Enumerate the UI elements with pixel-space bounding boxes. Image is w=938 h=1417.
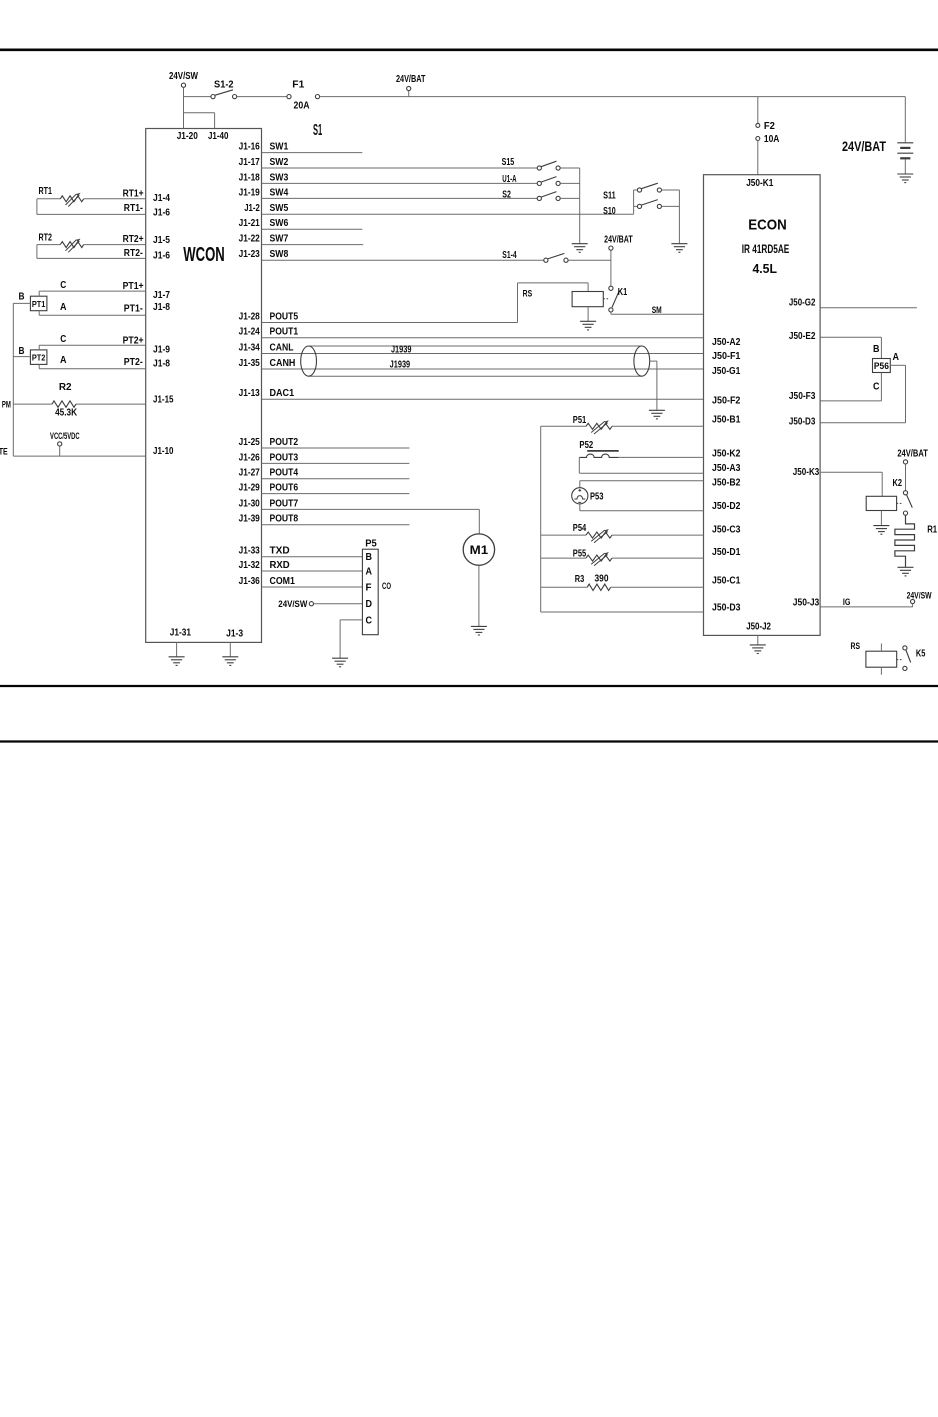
svg-text:A: A bbox=[60, 355, 67, 366]
wire 24V/SW to P5-D bbox=[314, 603, 363, 605]
ground (S11/S10) bbox=[671, 244, 687, 253]
svg-text:J1-6: J1-6 bbox=[153, 251, 170, 262]
svg-text:A: A bbox=[893, 352, 900, 363]
svg-text:S1: S1 bbox=[313, 122, 322, 139]
svg-text:POUT3: POUT3 bbox=[270, 452, 299, 463]
svg-text:P56: P56 bbox=[874, 361, 889, 371]
svg-text:10A: 10A bbox=[764, 134, 780, 145]
ground (battery) bbox=[897, 174, 913, 183]
svg-text:24V/BAT: 24V/BAT bbox=[604, 234, 633, 245]
svg-text:RT1: RT1 bbox=[39, 186, 53, 197]
wire 24V/SW to S1-2 bbox=[184, 96, 211, 98]
wire F2 to ECON J50-K1 bbox=[757, 141, 759, 175]
svg-text:D: D bbox=[366, 599, 373, 610]
svg-text:J1-15: J1-15 bbox=[153, 394, 174, 405]
svg-text:TE: TE bbox=[0, 447, 8, 457]
wire CANH to ECON J50-G1 bbox=[262, 368, 704, 370]
svg-text:IG: IG bbox=[843, 597, 851, 607]
svg-text:F1: F1 bbox=[292, 80, 304, 91]
sender P53 bbox=[579, 481, 581, 488]
svg-text:P54: P54 bbox=[573, 523, 587, 534]
ground (J1-31) bbox=[169, 657, 185, 666]
svg-text:J1-20: J1-20 bbox=[177, 131, 199, 142]
ground (M1) bbox=[471, 626, 487, 635]
relay contact K5 bbox=[903, 646, 907, 650]
svg-text:J1-21: J1-21 bbox=[239, 218, 261, 229]
relay contact K1 bbox=[609, 286, 613, 290]
wire RXD bbox=[262, 570, 363, 572]
svg-text:S11: S11 bbox=[603, 190, 616, 201]
sensor PT1 bbox=[30, 296, 47, 311]
ground (K2 coil) bbox=[873, 526, 889, 535]
wire SW5 up to S11 bbox=[633, 190, 635, 214]
svg-text:24V/BAT: 24V/BAT bbox=[396, 74, 426, 85]
svg-text:PT2-: PT2- bbox=[124, 357, 143, 368]
svg-text:R1: R1 bbox=[927, 525, 937, 536]
ground (K1 coil) bbox=[580, 321, 596, 330]
wire 24V/SW stub down to WCON J1-20 bbox=[183, 87, 185, 128]
svg-text:J1-23: J1-23 bbox=[239, 249, 261, 260]
svg-text:J50-C1: J50-C1 bbox=[712, 575, 741, 586]
svg-text:J1-28: J1-28 bbox=[239, 311, 261, 322]
wire PT2 C bbox=[39, 344, 146, 346]
svg-text:J50-C3: J50-C3 bbox=[712, 525, 741, 536]
svg-text:SW7: SW7 bbox=[270, 234, 289, 245]
wire VCC stub bbox=[59, 446, 61, 456]
wire 24V/BAT to K2 contact bbox=[905, 464, 907, 491]
svg-text:F2: F2 bbox=[764, 121, 775, 132]
wire PT1 A bbox=[38, 311, 40, 316]
svg-text:J50-F3: J50-F3 bbox=[789, 391, 816, 402]
svg-text:J1-13: J1-13 bbox=[239, 388, 261, 399]
wire K5 coil stubs bbox=[880, 644, 882, 652]
svg-text:PT2+: PT2+ bbox=[123, 335, 144, 346]
svg-text:J1-8: J1-8 bbox=[153, 359, 170, 370]
wire SW1 bbox=[262, 152, 363, 154]
wire J50-G2 bbox=[820, 307, 917, 309]
svg-text:J1-36: J1-36 bbox=[239, 576, 261, 587]
svg-text:SW4: SW4 bbox=[270, 187, 289, 198]
svg-text:J50-E2: J50-E2 bbox=[789, 331, 816, 342]
wire COM1 bbox=[262, 586, 363, 588]
svg-text:24V/BAT: 24V/BAT bbox=[842, 139, 887, 154]
svg-text:J1-39: J1-39 bbox=[239, 514, 261, 525]
wire P5-C to ground bbox=[340, 619, 362, 621]
svg-text:24V/BAT: 24V/BAT bbox=[897, 448, 928, 459]
wire POUT8 bbox=[262, 524, 410, 526]
svg-text:J50-G1: J50-G1 bbox=[712, 366, 741, 377]
frame top rule bbox=[0, 48, 938, 51]
wire POUT5 / RS to K1 coil bbox=[262, 322, 518, 324]
svg-text:J50-A3: J50-A3 bbox=[712, 463, 741, 474]
svg-text:C: C bbox=[873, 381, 880, 392]
svg-text:J1-27: J1-27 bbox=[239, 468, 261, 479]
svg-text:R3: R3 bbox=[575, 574, 585, 585]
wire S15 out bbox=[560, 167, 580, 169]
svg-text:J1-6: J1-6 bbox=[153, 208, 170, 219]
svg-text:P5: P5 bbox=[365, 539, 377, 550]
svg-text:P51: P51 bbox=[573, 415, 587, 426]
frame rule 1 bbox=[0, 685, 938, 687]
svg-text:J1-19: J1-19 bbox=[239, 187, 261, 198]
svg-text:J50-K2: J50-K2 bbox=[712, 449, 741, 460]
svg-text:J50-D3: J50-D3 bbox=[712, 603, 741, 614]
wire POUT1 to ECON J50-A2 bbox=[262, 337, 704, 339]
wire J50-E2 to P56 bbox=[820, 336, 881, 338]
svg-text:K2: K2 bbox=[893, 478, 903, 489]
svg-text:J1-18: J1-18 bbox=[239, 172, 261, 183]
svg-text:J50-G2: J50-G2 bbox=[789, 298, 816, 309]
wire POUT7 down to M1 bbox=[478, 509, 480, 534]
svg-text:S10: S10 bbox=[603, 206, 616, 217]
wire POUT3 bbox=[262, 462, 410, 464]
svg-text:J1939: J1939 bbox=[391, 345, 412, 356]
svg-text:VCC/5VDC: VCC/5VDC bbox=[50, 431, 80, 441]
wire POUT7 bbox=[262, 508, 480, 510]
wire J50-D3 bbox=[820, 422, 905, 424]
ground (P5-C) bbox=[332, 658, 348, 667]
wire SW4 bbox=[262, 197, 538, 199]
wire P56-A to J50-D3 bbox=[890, 364, 905, 366]
svg-text:20A: 20A bbox=[294, 101, 310, 112]
controller U-WCON bbox=[146, 129, 262, 643]
wire PT2 A bbox=[38, 364, 40, 368]
svg-text:J1-40: J1-40 bbox=[208, 131, 229, 142]
svg-text:C: C bbox=[60, 334, 66, 345]
wire SW2 bbox=[262, 167, 538, 169]
svg-text:24V/SW: 24V/SW bbox=[907, 590, 932, 601]
wire J50-J3 IG bbox=[820, 606, 913, 608]
svg-text:J50-F1: J50-F1 bbox=[712, 351, 741, 362]
svg-text:B: B bbox=[19, 291, 25, 302]
svg-text:C: C bbox=[366, 615, 373, 626]
ground (R1) bbox=[898, 567, 914, 576]
wire SM to ECON bbox=[610, 312, 612, 314]
svg-text:SW3: SW3 bbox=[270, 172, 289, 183]
wire junction down to fuse F2 bbox=[757, 97, 759, 124]
svg-text:PT1+: PT1+ bbox=[123, 281, 144, 292]
svg-text:RT1+: RT1+ bbox=[123, 188, 144, 199]
wire rail to battery bbox=[904, 97, 906, 143]
wire ECON to ground bbox=[757, 635, 759, 644]
svg-text:J1-4: J1-4 bbox=[153, 193, 170, 204]
svg-text:J1-8: J1-8 bbox=[153, 302, 170, 313]
svg-text:WCON: WCON bbox=[183, 244, 225, 266]
svg-text:P52: P52 bbox=[579, 440, 593, 451]
svg-text:IR 41RD5AE: IR 41RD5AE bbox=[742, 242, 790, 256]
svg-text:CANH: CANH bbox=[270, 358, 296, 369]
svg-text:POUT7: POUT7 bbox=[270, 498, 299, 509]
svg-text:S15: S15 bbox=[502, 157, 515, 168]
svg-text:RT2: RT2 bbox=[39, 233, 53, 244]
svg-text:J50-B2: J50-B2 bbox=[712, 478, 741, 489]
svg-text:J1-31: J1-31 bbox=[170, 628, 192, 639]
svg-text:J1-16: J1-16 bbox=[239, 142, 261, 153]
ground (shield) bbox=[649, 410, 665, 419]
wire J1-31 to ground bbox=[176, 642, 178, 656]
wire TXD bbox=[262, 556, 363, 558]
wire S2 out bbox=[560, 197, 580, 199]
svg-text:J1939: J1939 bbox=[390, 359, 411, 370]
wire P52 to J50-A3 bbox=[578, 457, 580, 473]
svg-text:C: C bbox=[60, 280, 66, 291]
svg-text:K5: K5 bbox=[916, 648, 926, 659]
svg-text:J1-25: J1-25 bbox=[239, 437, 261, 448]
wire SW6 bbox=[262, 228, 363, 230]
svg-text:POUT8: POUT8 bbox=[270, 514, 299, 525]
wire U1-A out bbox=[560, 182, 580, 184]
wire switch-bank common to ground bbox=[579, 168, 581, 243]
wire S10 out bbox=[662, 205, 680, 207]
wire S1-2 to F1 bbox=[237, 96, 287, 98]
relay coil K1 bbox=[572, 292, 603, 307]
svg-text:RXD: RXD bbox=[270, 560, 290, 571]
terminal 24V/SW bbox=[181, 83, 185, 87]
svg-text:24V/SW: 24V/SW bbox=[278, 599, 307, 610]
ground (J1-3) bbox=[222, 657, 238, 666]
wire PT2 B bbox=[13, 356, 30, 358]
svg-text:SW6: SW6 bbox=[270, 218, 289, 229]
svg-text:DAC1: DAC1 bbox=[270, 388, 295, 399]
relay K1 dashed link bbox=[603, 298, 609, 300]
ground (ECON) bbox=[750, 645, 766, 654]
svg-text:PM: PM bbox=[2, 399, 11, 409]
svg-text:J50-D1: J50-D1 bbox=[712, 547, 741, 558]
svg-text:POUT6: POUT6 bbox=[270, 483, 299, 494]
wire DAC1 to ECON J50-F2 bbox=[262, 398, 704, 400]
svg-text:B: B bbox=[19, 346, 25, 357]
svg-text:P53: P53 bbox=[590, 492, 604, 503]
svg-text:J50-K3: J50-K3 bbox=[793, 467, 820, 478]
svg-text:RT2+: RT2+ bbox=[123, 234, 144, 245]
svg-text:M1: M1 bbox=[470, 543, 489, 557]
svg-text:RS: RS bbox=[523, 288, 533, 298]
svg-text:390: 390 bbox=[595, 574, 609, 585]
svg-text:J1-10: J1-10 bbox=[153, 446, 174, 457]
fuse F2 10A bbox=[756, 123, 760, 127]
svg-text:J1-32: J1-32 bbox=[239, 560, 261, 571]
svg-text:J50-F2: J50-F2 bbox=[712, 396, 741, 407]
svg-text:J1-5: J1-5 bbox=[153, 235, 170, 246]
svg-text:J1-35: J1-35 bbox=[239, 358, 261, 369]
wire S11/S10 common to ground bbox=[678, 190, 680, 243]
wire J1-3 to ground bbox=[229, 642, 231, 656]
ground (switch bank) bbox=[572, 244, 588, 253]
svg-text:POUT5: POUT5 bbox=[270, 311, 299, 322]
svg-text:J50-B1: J50-B1 bbox=[712, 415, 741, 426]
svg-text:PT1: PT1 bbox=[32, 299, 46, 309]
wire 24V/BAT stub bbox=[408, 91, 410, 97]
wire J50-B2 bbox=[580, 480, 704, 482]
wire RT2 loop bbox=[36, 245, 38, 259]
svg-text:J1-29: J1-29 bbox=[239, 483, 261, 494]
wire SW3 bbox=[262, 182, 538, 184]
wire POUT2 bbox=[262, 447, 410, 449]
svg-text:J1-26: J1-26 bbox=[239, 452, 261, 463]
wire POUT4 bbox=[262, 478, 410, 480]
svg-text:J50-K1: J50-K1 bbox=[746, 178, 774, 189]
wire TE bbox=[13, 455, 145, 457]
wire bus to J50-D3 bbox=[541, 611, 704, 613]
svg-text:A: A bbox=[366, 567, 373, 578]
svg-text:J1-17: J1-17 bbox=[239, 157, 261, 168]
wire P52 to J50-K2 bbox=[619, 456, 704, 458]
wire CANL to ECON J50-F1 bbox=[262, 353, 704, 355]
wire P56-C to J50-F3 bbox=[880, 373, 882, 401]
svg-text:CANL: CANL bbox=[270, 342, 294, 353]
svg-text:J50-A2: J50-A2 bbox=[712, 337, 741, 348]
svg-text:SW2: SW2 bbox=[270, 157, 289, 168]
svg-text:POUT4: POUT4 bbox=[270, 468, 299, 479]
wire S11 out bbox=[662, 189, 680, 191]
svg-text:TXD: TXD bbox=[270, 546, 290, 557]
svg-text:J1-2: J1-2 bbox=[244, 203, 260, 214]
svg-text:ECON: ECON bbox=[748, 217, 787, 234]
wire SW7 bbox=[262, 244, 364, 246]
svg-text:J1-24: J1-24 bbox=[239, 327, 261, 338]
svg-text:PT1-: PT1- bbox=[124, 303, 143, 314]
svg-text:J1-22: J1-22 bbox=[239, 234, 261, 245]
controller U-ECON bbox=[704, 175, 821, 636]
svg-text:A: A bbox=[60, 302, 67, 313]
svg-text:SW8: SW8 bbox=[270, 249, 289, 260]
wire PT1 C bbox=[39, 290, 146, 292]
connector P56 bbox=[873, 359, 891, 373]
wire J50-K3 to K2 coil bbox=[820, 471, 882, 473]
svg-text:J1-9: J1-9 bbox=[153, 344, 170, 355]
svg-text:RT1-: RT1- bbox=[124, 203, 143, 214]
wire battery to ground bbox=[904, 159, 906, 173]
svg-text:J50-D3: J50-D3 bbox=[789, 416, 816, 427]
svg-text:24V/SW: 24V/SW bbox=[169, 71, 198, 82]
svg-text:POUT1: POUT1 bbox=[270, 327, 299, 338]
wire S1-4 to K1 node bbox=[568, 259, 611, 261]
svg-text:J1-30: J1-30 bbox=[239, 498, 261, 509]
svg-text:U1-A: U1-A bbox=[502, 174, 516, 185]
svg-text:S2: S2 bbox=[502, 189, 511, 200]
wire SW5 bbox=[262, 213, 634, 215]
svg-text:J1-33: J1-33 bbox=[239, 546, 261, 557]
wire branch to J1-40 bbox=[184, 112, 215, 114]
wire K2 coil to ground bbox=[880, 511, 882, 526]
wire F1 to battery rail bbox=[320, 96, 906, 98]
wire POUT6 bbox=[262, 493, 410, 495]
cable J1939 shield bbox=[309, 345, 642, 347]
svg-text:B: B bbox=[366, 552, 373, 563]
svg-text:SW5: SW5 bbox=[270, 203, 289, 214]
wire P53 to J50-D2 bbox=[579, 504, 581, 511]
svg-text:4.5L: 4.5L bbox=[752, 261, 777, 276]
wire B bus vertical bbox=[12, 303, 14, 456]
motor M1 bbox=[463, 534, 494, 565]
wire PT1 B bbox=[13, 302, 30, 304]
svg-text:K1: K1 bbox=[618, 287, 628, 298]
svg-text:RT2-: RT2- bbox=[124, 248, 143, 259]
svg-text:J50-J2: J50-J2 bbox=[746, 622, 771, 633]
svg-text:SM: SM bbox=[652, 305, 662, 315]
svg-text:45.3K: 45.3K bbox=[55, 407, 78, 418]
svg-text:J50-D2: J50-D2 bbox=[712, 501, 741, 512]
svg-text:S1-2: S1-2 bbox=[214, 80, 234, 91]
wire RT1 loop bbox=[36, 199, 38, 215]
wire K1 coil to ground bbox=[587, 307, 589, 321]
svg-text:R2: R2 bbox=[59, 382, 72, 393]
svg-text:J1-7: J1-7 bbox=[153, 290, 170, 301]
relay K5 coil bbox=[866, 651, 897, 667]
wire SW8 bbox=[262, 259, 544, 261]
wire 24V/BAT to K1 contact bbox=[610, 250, 612, 286]
svg-text:B: B bbox=[873, 344, 880, 355]
svg-text:RS: RS bbox=[851, 641, 861, 651]
frame rule 2 bbox=[0, 740, 938, 742]
wire shield drain to ground bbox=[650, 360, 657, 362]
svg-text:S1-4: S1-4 bbox=[502, 250, 517, 261]
svg-text:J1-3: J1-3 bbox=[226, 628, 243, 639]
wire P5x bus bbox=[540, 426, 542, 612]
svg-text:POUT2: POUT2 bbox=[270, 437, 299, 448]
sensor PT2 bbox=[30, 350, 47, 365]
wire M1 to ground bbox=[478, 565, 480, 626]
svg-text:F: F bbox=[366, 583, 372, 594]
svg-text:J1-34: J1-34 bbox=[239, 342, 261, 353]
svg-text:SW1: SW1 bbox=[270, 142, 289, 153]
svg-text:CO: CO bbox=[382, 581, 391, 591]
svg-text:J50-J3: J50-J3 bbox=[793, 598, 820, 609]
svg-text:PT2: PT2 bbox=[32, 353, 46, 363]
svg-text:COM1: COM1 bbox=[270, 576, 296, 587]
